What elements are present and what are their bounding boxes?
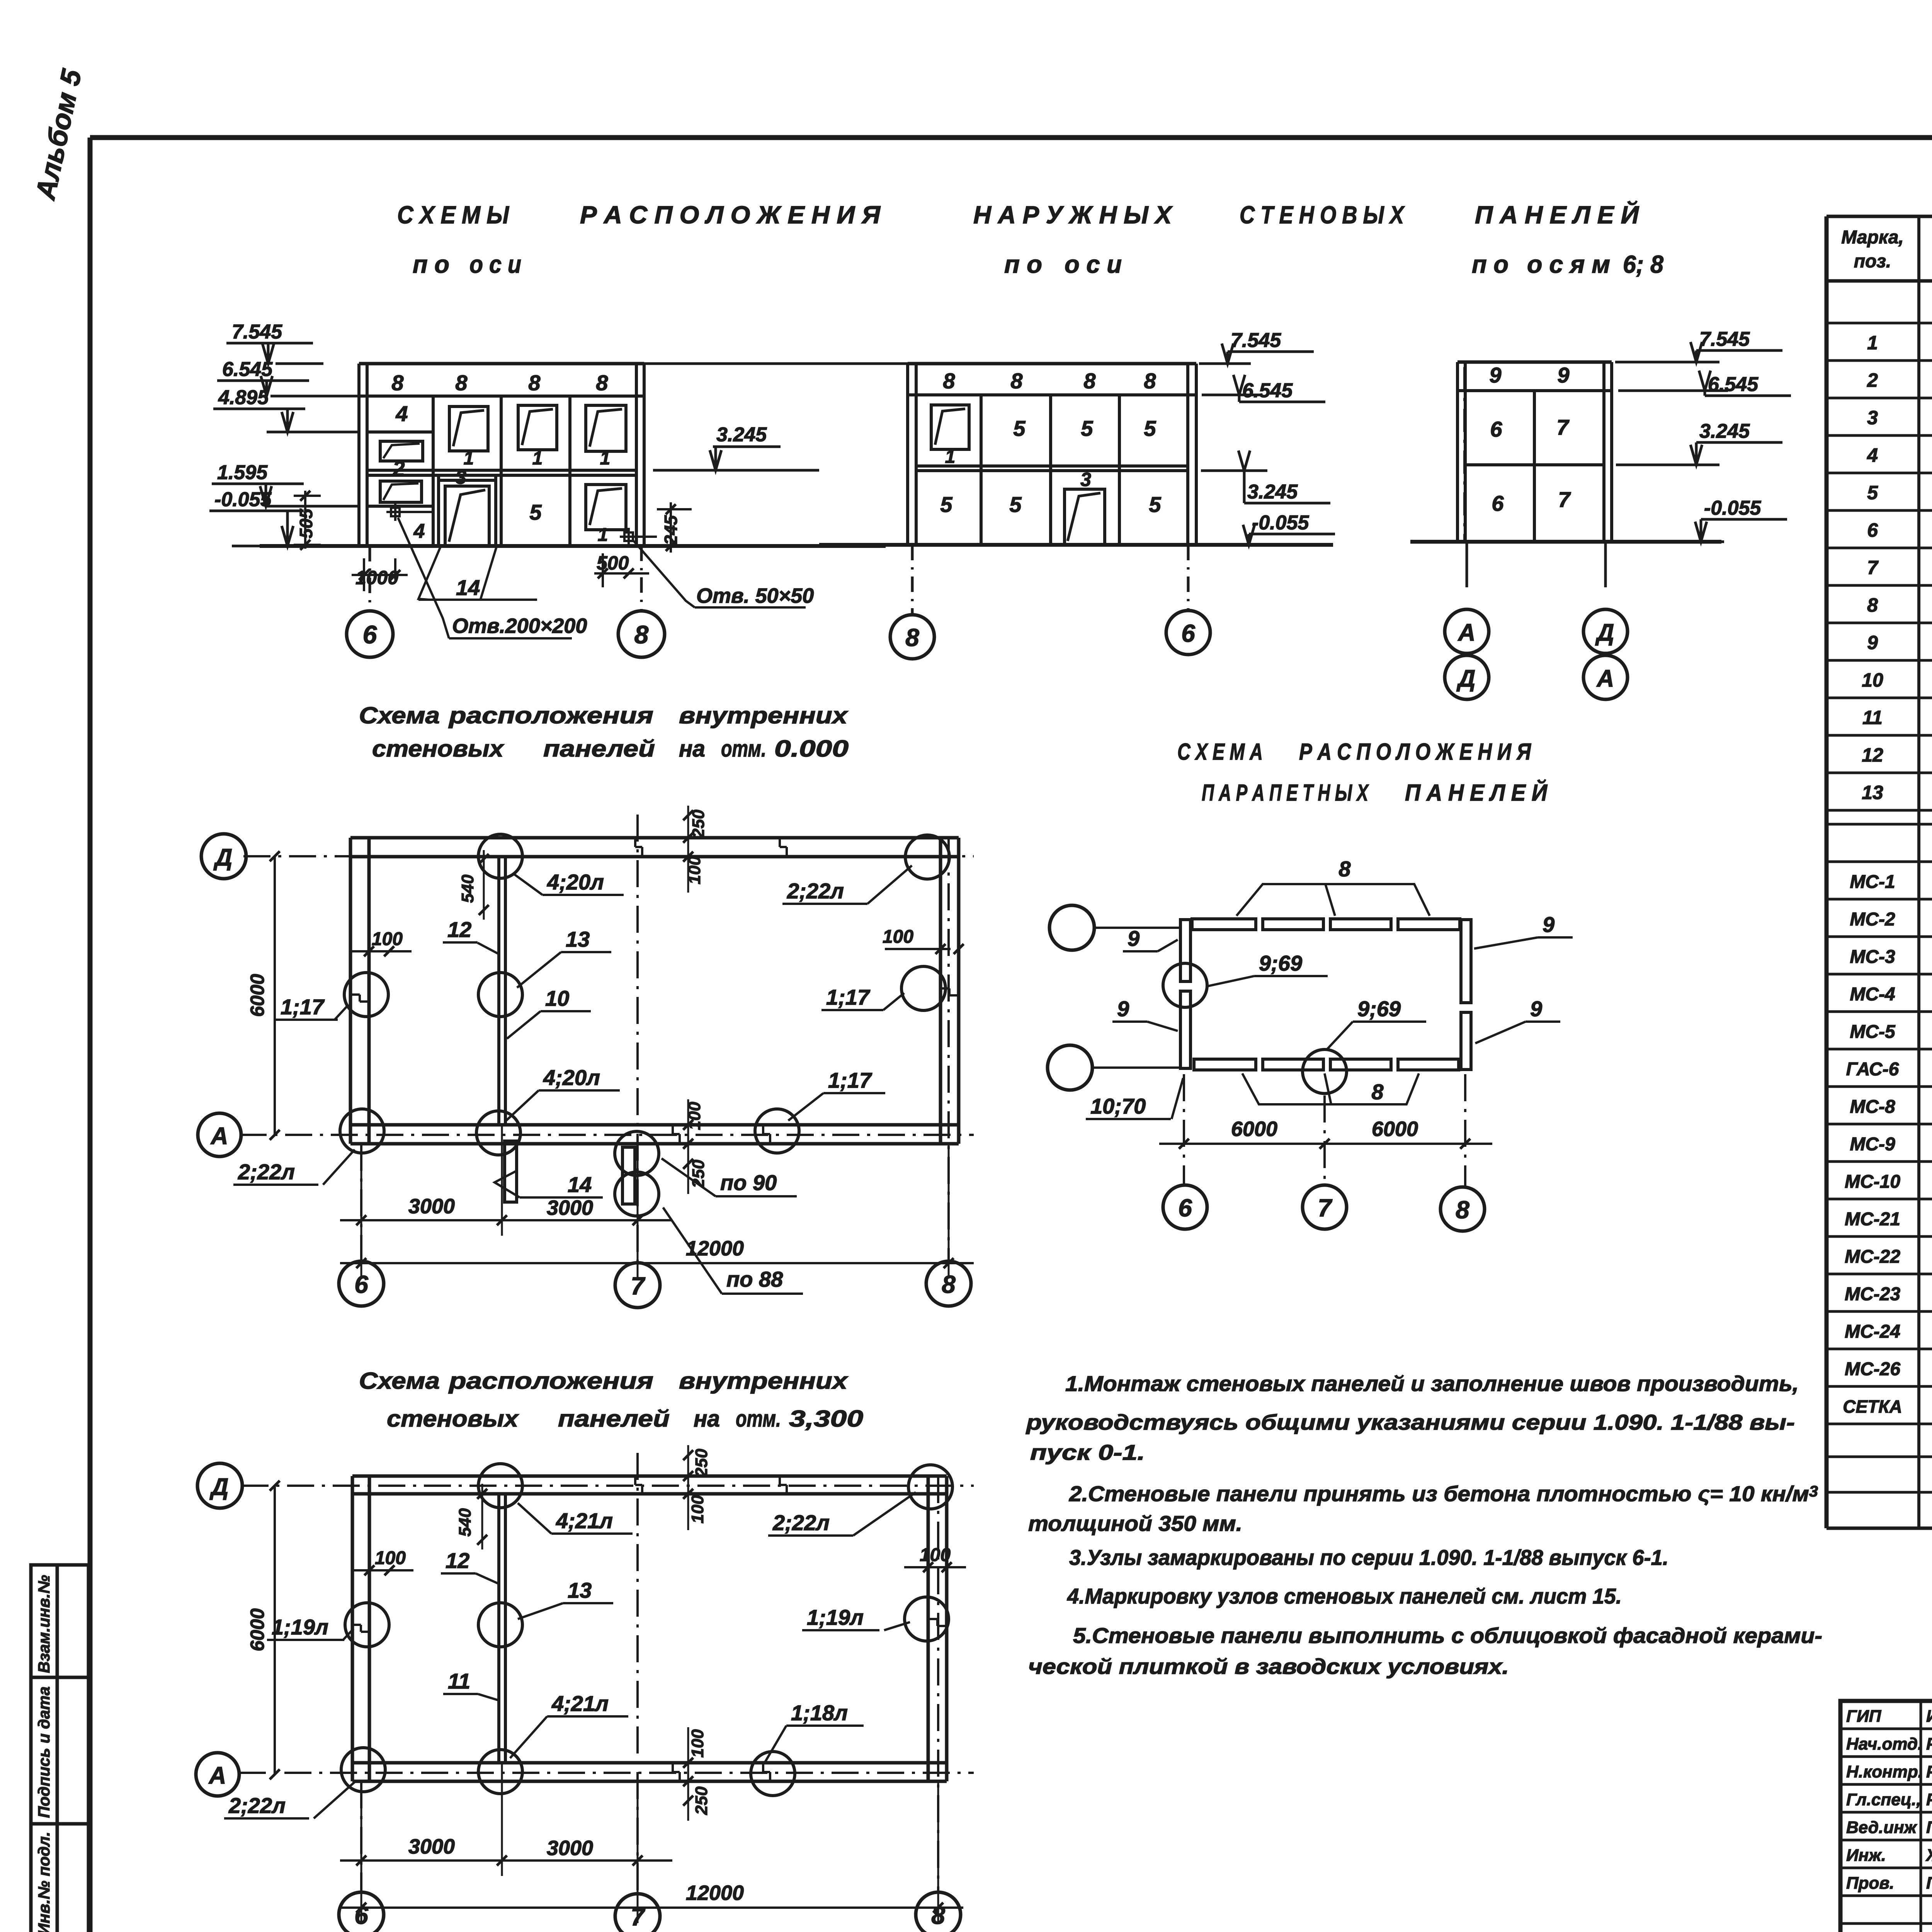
svg-text:13: 13 [566, 927, 590, 951]
svg-text:1;19л: 1;19л [272, 1615, 328, 1639]
svg-text:4: 4 [413, 520, 425, 543]
svg-text:12000: 12000 [686, 1881, 744, 1905]
svg-text:1: 1 [464, 448, 474, 469]
windows second storey [449, 406, 488, 451]
axis circle A [196, 1753, 239, 1796]
parapet junction circle bottom [1303, 1049, 1347, 1094]
svg-text:250: 250 [692, 1786, 711, 1815]
svg-text:Схема: Схема [359, 702, 440, 728]
internal dashed axis lines elevation 3 [1463, 367, 1466, 542]
svg-text:о с и: о с и [1065, 250, 1122, 278]
left margin stamp boxes [31, 1565, 88, 1932]
svg-text:8: 8 [1867, 594, 1878, 616]
parapet dim line 6000+6000 [1159, 1143, 1492, 1145]
svg-text:СЕТКА: СЕТКА [1843, 1396, 1902, 1417]
signature table [1840, 1701, 1932, 1932]
svg-text:Рашевския: Рашевския [1926, 1790, 1932, 1809]
svg-text:МС-10: МС-10 [1845, 1172, 1900, 1192]
svg-text:4.Маркировку узлов стеновых: 4.Маркировку узлов стеновых панелей см. … [1067, 1584, 1622, 1608]
parapet plan right wall panels [1461, 920, 1471, 1003]
svg-text:8: 8 [634, 620, 649, 649]
svg-text:5: 5 [1013, 416, 1026, 440]
svg-text:ческой плиткой в заводских: ческой плиткой в заводских условиях. [1028, 1654, 1509, 1679]
svg-text:9: 9 [1489, 363, 1501, 387]
axis circle A [198, 1113, 241, 1156]
svg-text:4;21л: 4;21л [551, 1691, 609, 1716]
elevation 1 horizontal joints [359, 395, 644, 398]
plan left wall [351, 1476, 354, 1781]
svg-text:5.Стеновые панели выполнить: 5.Стеновые панели выполнить с облицовкой… [1073, 1623, 1822, 1648]
svg-text:3000: 3000 [547, 1837, 593, 1860]
dim 505 rotated [304, 491, 306, 549]
svg-text:5: 5 [529, 500, 542, 524]
svg-text:4;20л: 4;20л [547, 870, 604, 894]
plan top wall [350, 836, 959, 840]
svg-text:о с я м: о с я м [1527, 250, 1610, 278]
svg-text:Пров.: Пров. [1846, 1874, 1894, 1893]
extension lines [361, 1144, 362, 1279]
svg-text:Жохова: Жохова [1925, 1846, 1932, 1865]
svg-text:С Х Е М Ы: С Х Е М Ы [397, 201, 510, 229]
bottom dim lines [340, 1219, 672, 1221]
svg-text:МС-21: МС-21 [1845, 1209, 1900, 1230]
svg-text:Н А Р У Ж Н Ы Х: Н А Р У Ж Н Ы Х [973, 201, 1173, 229]
axis circle 6 [339, 1892, 384, 1932]
spec table grid [1827, 215, 1932, 218]
svg-text:1: 1 [600, 448, 611, 469]
svg-text:100: 100 [920, 1545, 951, 1565]
svg-text:ГАС-6: ГАС-6 [1846, 1059, 1899, 1080]
svg-text:3.245: 3.245 [716, 423, 767, 446]
svg-text:8: 8 [596, 371, 608, 395]
svg-text:МС-1: МС-1 [1850, 872, 1895, 892]
svg-text:7.545: 7.545 [1699, 328, 1750, 350]
elevation 3 vertical joint [1533, 391, 1536, 542]
svg-text:9: 9 [1557, 363, 1569, 387]
bottom dim lines [340, 1859, 672, 1862]
svg-text:п о: п о [1004, 250, 1042, 278]
svg-text:13: 13 [568, 1578, 592, 1602]
svg-text:9: 9 [1543, 912, 1554, 937]
svg-text:6: 6 [1181, 619, 1195, 647]
svg-text:поз.: поз. [1854, 251, 1891, 272]
svg-text:6; 8: 6; 8 [1623, 250, 1663, 278]
svg-text:-0.055: -0.055 [1704, 497, 1762, 519]
svg-text:1: 1 [945, 447, 956, 467]
svg-text:1;19л: 1;19л [807, 1605, 864, 1629]
svg-text:Д: Д [1456, 665, 1476, 692]
svg-text:отм.: отм. [721, 736, 766, 762]
svg-text:500: 500 [597, 552, 629, 574]
axis circle D [201, 834, 246, 879]
svg-text:3.Узлы замаркированы по сер: 3.Узлы замаркированы по серии 1.090. 1-1… [1069, 1545, 1668, 1570]
svg-text:Марка,: Марка, [1841, 227, 1904, 248]
elevation 1 vertical joints [432, 396, 435, 546]
svg-text:МС-8: МС-8 [1850, 1097, 1895, 1117]
svg-text:12: 12 [447, 917, 471, 942]
svg-text:7: 7 [1867, 557, 1879, 578]
svg-text:Р А С П О Л О Ж Е Н И Я: Р А С П О Л О Ж Е Н И Я [580, 201, 881, 229]
svg-text:8: 8 [1371, 1080, 1384, 1104]
svg-text:4;21л: 4;21л [556, 1509, 613, 1533]
svg-text:250: 250 [692, 1449, 711, 1478]
svg-text:Инв.№ подл.: Инв.№ подл. [35, 1832, 53, 1932]
svg-text:3000: 3000 [408, 1835, 455, 1858]
svg-text:Панкратова: Панкратова [1926, 1874, 1932, 1893]
svg-text:МС-3: МС-3 [1850, 947, 1895, 967]
elevation scheme axes 6-8 : wall outline [359, 362, 644, 366]
window elevation 2 [931, 405, 969, 449]
svg-text:2;22л: 2;22л [772, 1510, 830, 1535]
wall joint joggles [634, 838, 636, 847]
svg-text:100: 100 [688, 1729, 707, 1758]
parapet plan left wall panels [1180, 920, 1190, 981]
svg-text:5: 5 [940, 492, 952, 517]
svg-text:панелей: панелей [543, 736, 655, 762]
svg-text:6.545: 6.545 [1708, 373, 1759, 396]
svg-text:1: 1 [1867, 332, 1878, 354]
svg-text:1.595: 1.595 [217, 461, 268, 484]
elevation 2 vertical joints [980, 395, 983, 545]
svg-text:п о: п о [1472, 250, 1509, 278]
svg-text:0.000: 0.000 [774, 736, 849, 762]
svg-text:толщиной 350 мм.: толщиной 350 мм. [1028, 1511, 1242, 1536]
vertical dim 6000 [274, 856, 276, 1135]
svg-text:505: 505 [296, 508, 316, 538]
svg-text:Инж.: Инж. [1846, 1846, 1886, 1865]
svg-text:100: 100 [688, 1495, 707, 1524]
svg-text:руководствуясь общими указан: руководствуясь общими указаниями серии 1… [1026, 1410, 1795, 1434]
svg-text:6000: 6000 [247, 1608, 268, 1651]
svg-text:6: 6 [1492, 491, 1504, 515]
svg-text:8: 8 [455, 371, 468, 395]
axis circles Д/А right pair [1604, 542, 1607, 587]
svg-text:1.Монтаж стеновых панелей и: 1.Монтаж стеновых панелей и заполнение ш… [1065, 1371, 1799, 1396]
elevation scheme axes 6;8 (А-Д) wall outline [1458, 361, 1612, 364]
svg-text:9: 9 [1867, 632, 1878, 653]
svg-text:3: 3 [1867, 407, 1878, 429]
svg-text:внутренних: внутренних [679, 702, 849, 728]
axis circle 8 elevation2 [911, 545, 914, 614]
svg-text:8: 8 [1456, 1196, 1469, 1224]
svg-text:100: 100 [375, 1548, 406, 1568]
svg-text:С Х Е М А: С Х Е М А [1177, 739, 1263, 765]
axis circle 8 [916, 1892, 961, 1932]
elevation 2 horizontal joints [908, 393, 1196, 396]
sheet border frame [90, 135, 1932, 140]
svg-text:Н.контр.: Н.контр. [1846, 1762, 1923, 1781]
axis circle 7 [615, 1894, 660, 1932]
vertical dim 6000 [274, 1486, 276, 1774]
svg-text:4: 4 [1867, 444, 1878, 466]
svg-text:8: 8 [1144, 369, 1156, 393]
door panel 3 elevation 2 [1065, 489, 1105, 545]
svg-text:6000: 6000 [247, 974, 268, 1017]
svg-text:9;69: 9;69 [1259, 951, 1302, 975]
axis circle 6 elevation2 [1187, 545, 1190, 611]
svg-text:МС-9: МС-9 [1850, 1134, 1895, 1155]
svg-text:11: 11 [1862, 707, 1883, 728]
svg-text:2: 2 [392, 456, 405, 481]
svg-text:1: 1 [532, 448, 543, 469]
svg-text:8: 8 [905, 624, 919, 651]
svg-text:8: 8 [943, 369, 955, 393]
svg-text:Д: Д [1595, 619, 1614, 646]
parapet plan top wall panels [1192, 919, 1256, 930]
svg-text:4;20л: 4;20л [543, 1065, 600, 1090]
svg-text:3: 3 [1080, 469, 1091, 490]
svg-text:3000: 3000 [408, 1195, 455, 1218]
svg-text:по 88: по 88 [726, 1267, 783, 1291]
parapet junction circle left [1163, 963, 1207, 1007]
svg-text:внутренних: внутренних [679, 1368, 849, 1394]
dim 245 rotated right [670, 502, 672, 553]
plan bottom wall [352, 1761, 947, 1765]
svg-text:П А Н Е Л Е Й: П А Н Е Л Е Й [1405, 779, 1548, 806]
svg-text:МС-22: МС-22 [1845, 1247, 1900, 1267]
plan right wall [939, 838, 942, 1144]
svg-text:9: 9 [1530, 997, 1542, 1021]
svg-text:А: А [208, 1762, 226, 1789]
svg-text:-0.055: -0.055 [214, 488, 272, 511]
svg-text:540: 540 [458, 874, 477, 903]
parapet axis circle 7 [1303, 1185, 1347, 1229]
plan left wall [349, 838, 352, 1144]
svg-text:МС-4: МС-4 [1850, 984, 1895, 1005]
svg-text:6.545: 6.545 [222, 358, 273, 381]
svg-text:6: 6 [1867, 519, 1878, 541]
svg-text:6.545: 6.545 [1242, 379, 1293, 402]
svg-text:А: А [210, 1123, 228, 1150]
panel label 4 upper left [367, 430, 433, 434]
svg-text:3,300: 3,300 [789, 1406, 863, 1432]
svg-text:2;22л: 2;22л [238, 1160, 295, 1184]
svg-text:14: 14 [568, 1172, 592, 1197]
elevation 2 ground line [819, 543, 1333, 547]
svg-text:100: 100 [883, 927, 913, 947]
svg-text:6: 6 [363, 620, 378, 649]
svg-text:А: А [1596, 665, 1614, 692]
svg-text:1;17: 1;17 [826, 985, 871, 1009]
svg-text:Рашевский: Рашевский [1926, 1762, 1932, 1781]
svg-text:100: 100 [372, 929, 403, 949]
axis circles А/Д left pair [1466, 542, 1468, 587]
junction detail circles [478, 834, 522, 878]
svg-text:9: 9 [1117, 997, 1129, 1021]
parapet bottom bracket with label 8 [1242, 1073, 1419, 1104]
svg-text:С Т Е Н О В Ы Х: С Т Е Н О В Ы Х [1240, 201, 1405, 229]
svg-text:ГИП: ГИП [1846, 1707, 1882, 1726]
svg-text:1;17: 1;17 [828, 1068, 872, 1092]
svg-text:5: 5 [1144, 416, 1156, 440]
svg-text:по 90: по 90 [720, 1170, 777, 1195]
svg-text:250: 250 [689, 1160, 708, 1189]
svg-text:6: 6 [1490, 417, 1502, 441]
parapet axis circle 6 [1163, 1185, 1207, 1229]
svg-text:МС-5: МС-5 [1850, 1022, 1896, 1042]
svg-text:2;22л: 2;22л [228, 1793, 286, 1818]
svg-text:Р А С П О Л О Ж Е Н И Я: Р А С П О Л О Ж Е Н И Я [1299, 739, 1531, 765]
svg-text:панелей: панелей [558, 1406, 670, 1432]
axis circle D [197, 1463, 242, 1508]
elevation scheme axis 8-6 : wall outline [908, 362, 1196, 366]
svg-text:Д: Д [209, 1474, 229, 1500]
svg-text:245: 245 [661, 515, 681, 545]
svg-text:2;22л: 2;22л [787, 879, 844, 903]
elevation 1 ground line [260, 544, 886, 548]
svg-text:пуск 0-1.: пуск 0-1. [1030, 1440, 1145, 1464]
interior wall panel 12 [497, 857, 500, 1125]
door panel 3 [437, 476, 440, 546]
parapet axis extension lines [1183, 1074, 1185, 1185]
svg-text:Нач.отд.: Нач.отд. [1846, 1735, 1922, 1753]
svg-text:1: 1 [598, 525, 608, 545]
plan1 extra: po90 panel and circles [615, 1131, 659, 1175]
svg-text:расположения: расположения [448, 702, 653, 728]
svg-text:Вед.инж: Вед.инж [1846, 1818, 1918, 1837]
svg-text:п о: п о [413, 250, 449, 278]
svg-text:на: на [679, 736, 705, 762]
axis dash-dot lines [241, 1485, 974, 1487]
svg-text:МС-24: МС-24 [1845, 1321, 1900, 1342]
parapet top bracket with label 8 [1236, 884, 1430, 916]
svg-text:Отв.200×200: Отв.200×200 [452, 614, 587, 638]
svg-text:8: 8 [1010, 369, 1023, 393]
svg-text:Подпись и дата: Подпись и дата [35, 1687, 53, 1818]
axis circle 8 [926, 1261, 971, 1306]
svg-text:4: 4 [395, 401, 408, 426]
svg-text:8: 8 [528, 371, 541, 395]
svg-text:9;69: 9;69 [1357, 997, 1401, 1021]
svg-text:МС-26: МС-26 [1845, 1359, 1900, 1379]
svg-text:Схема: Схема [359, 1368, 440, 1394]
svg-text:Иванова: Иванова [1926, 1707, 1932, 1726]
svg-text:4.895: 4.895 [218, 386, 269, 409]
elevation 3 ground line [1410, 540, 1721, 544]
svg-text:МС-2: МС-2 [1850, 909, 1895, 930]
parapet axis circles left (unlabeled) [1049, 905, 1094, 950]
svg-text:13: 13 [1862, 782, 1883, 803]
axis circle 6 elevation1 [369, 546, 371, 611]
small panels 2 [380, 441, 423, 461]
svg-text:Д: Д [213, 844, 233, 871]
dim 500 under right [594, 572, 649, 575]
svg-text:отм.: отм. [736, 1406, 781, 1432]
svg-text:12000: 12000 [686, 1237, 744, 1260]
svg-text:Рыбкина: Рыбкина [1926, 1735, 1932, 1753]
hole 200x200 with leader [391, 508, 400, 516]
svg-text:6: 6 [1178, 1194, 1192, 1222]
svg-text:5: 5 [1081, 416, 1093, 440]
svg-text:3.245: 3.245 [1699, 420, 1750, 442]
svg-text:Гл.спец.,: Гл.спец., [1846, 1790, 1921, 1809]
svg-text:МС-23: МС-23 [1845, 1284, 1900, 1304]
svg-text:10: 10 [1862, 669, 1883, 691]
svg-text:П А Р А П Е Т Н Ы Х: П А Р А П Е Т Н Ы Х [1202, 780, 1369, 806]
svg-text:5: 5 [1867, 482, 1878, 503]
svg-text:6000: 6000 [1231, 1117, 1277, 1141]
svg-text:7: 7 [1556, 415, 1570, 439]
svg-text:14: 14 [456, 575, 480, 600]
svg-text:1;18л: 1;18л [791, 1701, 848, 1725]
svg-text:7: 7 [1558, 487, 1571, 512]
svg-text:8: 8 [1083, 369, 1096, 393]
extension lines [361, 1781, 362, 1923]
svg-text:3000: 3000 [547, 1196, 593, 1219]
dim 1000 under elevation1 [363, 558, 365, 591]
svg-text:10: 10 [545, 986, 569, 1010]
svg-text:12: 12 [1862, 744, 1883, 766]
junction detail circles [478, 1464, 522, 1508]
svg-text:8: 8 [1338, 857, 1351, 881]
svg-text:540: 540 [456, 1508, 474, 1537]
svg-text:8: 8 [391, 371, 404, 395]
label 14 with leaders [418, 547, 440, 600]
elevation 3 horizontal joints [1458, 389, 1612, 392]
svg-text:7: 7 [1318, 1194, 1333, 1222]
svg-text:П А Н Е Л Е Й: П А Н Е Л Е Й [1475, 200, 1639, 229]
svg-text:расположения: расположения [448, 1368, 653, 1394]
svg-text:на: на [694, 1406, 720, 1432]
svg-text:А: А [1458, 619, 1476, 646]
plan right wall [927, 1476, 930, 1781]
window ground storey col4 [586, 485, 626, 530]
wall joint joggles [634, 1476, 636, 1485]
svg-text:7.545: 7.545 [232, 321, 282, 343]
plan bottom wall [350, 1123, 959, 1127]
parapet axis circle 8 [1440, 1187, 1485, 1231]
svg-text:2.Стеновые панели принять и: 2.Стеновые панели принять из бетона плот… [1069, 1481, 1818, 1506]
svg-text:5: 5 [1149, 492, 1161, 517]
svg-text:5: 5 [1009, 492, 1022, 517]
svg-text:3: 3 [456, 466, 466, 488]
svg-text:1000: 1000 [355, 567, 398, 588]
svg-text:12: 12 [446, 1548, 469, 1573]
svg-text:стеновых: стеновых [387, 1406, 519, 1432]
parapet plan bottom wall panels [1194, 1059, 1256, 1070]
svg-text:Взам.инв.№: Взам.инв.№ [35, 1575, 53, 1673]
svg-text:9: 9 [1128, 926, 1139, 951]
svg-text:10;70: 10;70 [1090, 1094, 1146, 1118]
svg-text:Панкратова: Панкратова [1926, 1818, 1932, 1837]
svg-text:3.245: 3.245 [1247, 481, 1298, 503]
svg-text:-0.055: -0.055 [1252, 512, 1310, 534]
panel 14 below wall 12 [505, 1141, 517, 1202]
svg-text:о с и: о с и [469, 250, 521, 278]
svg-text:2: 2 [1867, 369, 1878, 391]
hole 50x50 with leader [624, 532, 633, 541]
axis circle 6 [339, 1261, 384, 1306]
axis dash-dot lines [243, 855, 974, 857]
svg-text:Отв. 50×50: Отв. 50×50 [696, 584, 814, 607]
svg-text:6000: 6000 [1372, 1117, 1418, 1141]
interior wall panel 12 [497, 1494, 500, 1763]
svg-text:стеновых: стеновых [372, 736, 505, 762]
svg-text:1;17: 1;17 [281, 995, 325, 1019]
axis circle 8 elevation1 [640, 546, 643, 611]
svg-text:11: 11 [448, 1669, 470, 1693]
plan top wall [352, 1475, 947, 1478]
svg-text:7.545: 7.545 [1231, 329, 1281, 352]
axis circle 7 [615, 1263, 660, 1308]
